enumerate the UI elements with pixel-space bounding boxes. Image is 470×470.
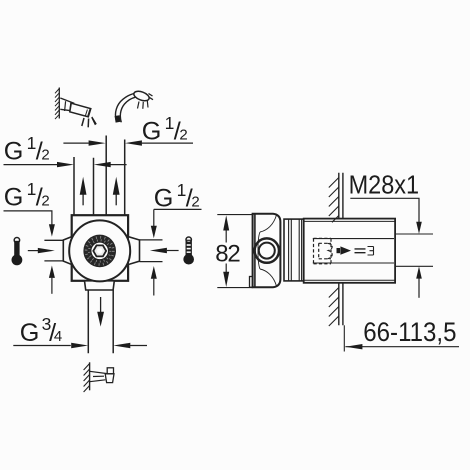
spindle center dot bbox=[97, 248, 102, 253]
hand shower icon bbox=[115, 93, 138, 122]
svg-text:G1/2: G1/2 bbox=[4, 133, 50, 166]
M28x1 leader bbox=[350, 198, 419, 222]
flow arrow up right pipe bbox=[115, 195, 117, 206]
svg-text:G3/4: G3/4 bbox=[20, 314, 62, 347]
flow arrow into left port bbox=[28, 250, 40, 252]
top right pipe bbox=[106, 136, 125, 216]
spindle arrow bbox=[337, 248, 341, 253]
M28 extension lines bbox=[395, 234, 433, 266]
hidden cartridge dashed bbox=[314, 238, 333, 264]
top left pipe bbox=[74, 157, 94, 216]
arrow up to right port bbox=[151, 266, 157, 279]
wall below bbox=[339, 283, 343, 326]
left port mouth lines bbox=[44, 240, 63, 261]
leader right mid G1/2 bbox=[154, 209, 202, 226]
body silhouette curves bbox=[260, 215, 277, 286]
M28 lower arrow bbox=[416, 266, 422, 278]
side view 82 extension lines bbox=[217, 215, 253, 288]
wall shower icon bbox=[58, 88, 60, 119]
arrow up to left port bbox=[49, 266, 55, 278]
svg-text:M28x1: M28x1 bbox=[349, 169, 420, 199]
knurled ring texture bbox=[88, 239, 112, 263]
sleeve bore lines bbox=[313, 239, 394, 263]
dimension 66-113,5 bbox=[345, 346, 459, 348]
left port flange bbox=[63, 237, 72, 265]
bottom pipe bbox=[88, 290, 113, 353]
bottom outlet boss bbox=[85, 281, 115, 290]
knurled ring inner edge bbox=[91, 242, 109, 260]
flow arrow into right port bbox=[167, 250, 179, 252]
cold thermometer bbox=[186, 237, 191, 242]
dimension bottom pipe G3/4 bbox=[13, 345, 147, 347]
wall face extension bbox=[343, 325, 345, 351]
right port flange bbox=[128, 237, 139, 265]
svg-text:G1/2: G1/2 bbox=[4, 179, 50, 212]
gasket band bbox=[284, 219, 304, 281]
protection sleeve bbox=[304, 219, 395, 283]
svg-text:G1/2: G1/2 bbox=[142, 113, 188, 146]
flow arrow down bottom pipe bbox=[100, 297, 102, 312]
bath spout icon bbox=[89, 362, 91, 390]
dimension right pipe G1/2 bbox=[63, 142, 193, 144]
spindle screw marks bbox=[355, 249, 366, 253]
svg-text:G1/2: G1/2 bbox=[154, 180, 200, 213]
side view main body bbox=[253, 214, 281, 287]
body bottom-left notch bbox=[250, 277, 253, 288]
hot thermometer bbox=[14, 238, 19, 243]
svg-text:66-113,5: 66-113,5 bbox=[363, 317, 456, 347]
dimension 82 arrows bbox=[225, 230, 227, 272]
wall above bbox=[339, 173, 343, 219]
right port mouth lines bbox=[140, 240, 163, 262]
valve body front view square bbox=[72, 215, 128, 281]
flow arrow up left pipe bbox=[82, 195, 84, 206]
leader left mid G1/2 bbox=[4, 211, 52, 225]
side port ring bbox=[255, 238, 279, 262]
escutcheon circle bbox=[69, 220, 130, 281]
knurled ring outer edge bbox=[84, 235, 115, 266]
svg-text:82: 82 bbox=[215, 241, 240, 268]
dimension left pipe G1/2 bbox=[4, 164, 127, 166]
spindle hexagon bbox=[93, 245, 106, 256]
